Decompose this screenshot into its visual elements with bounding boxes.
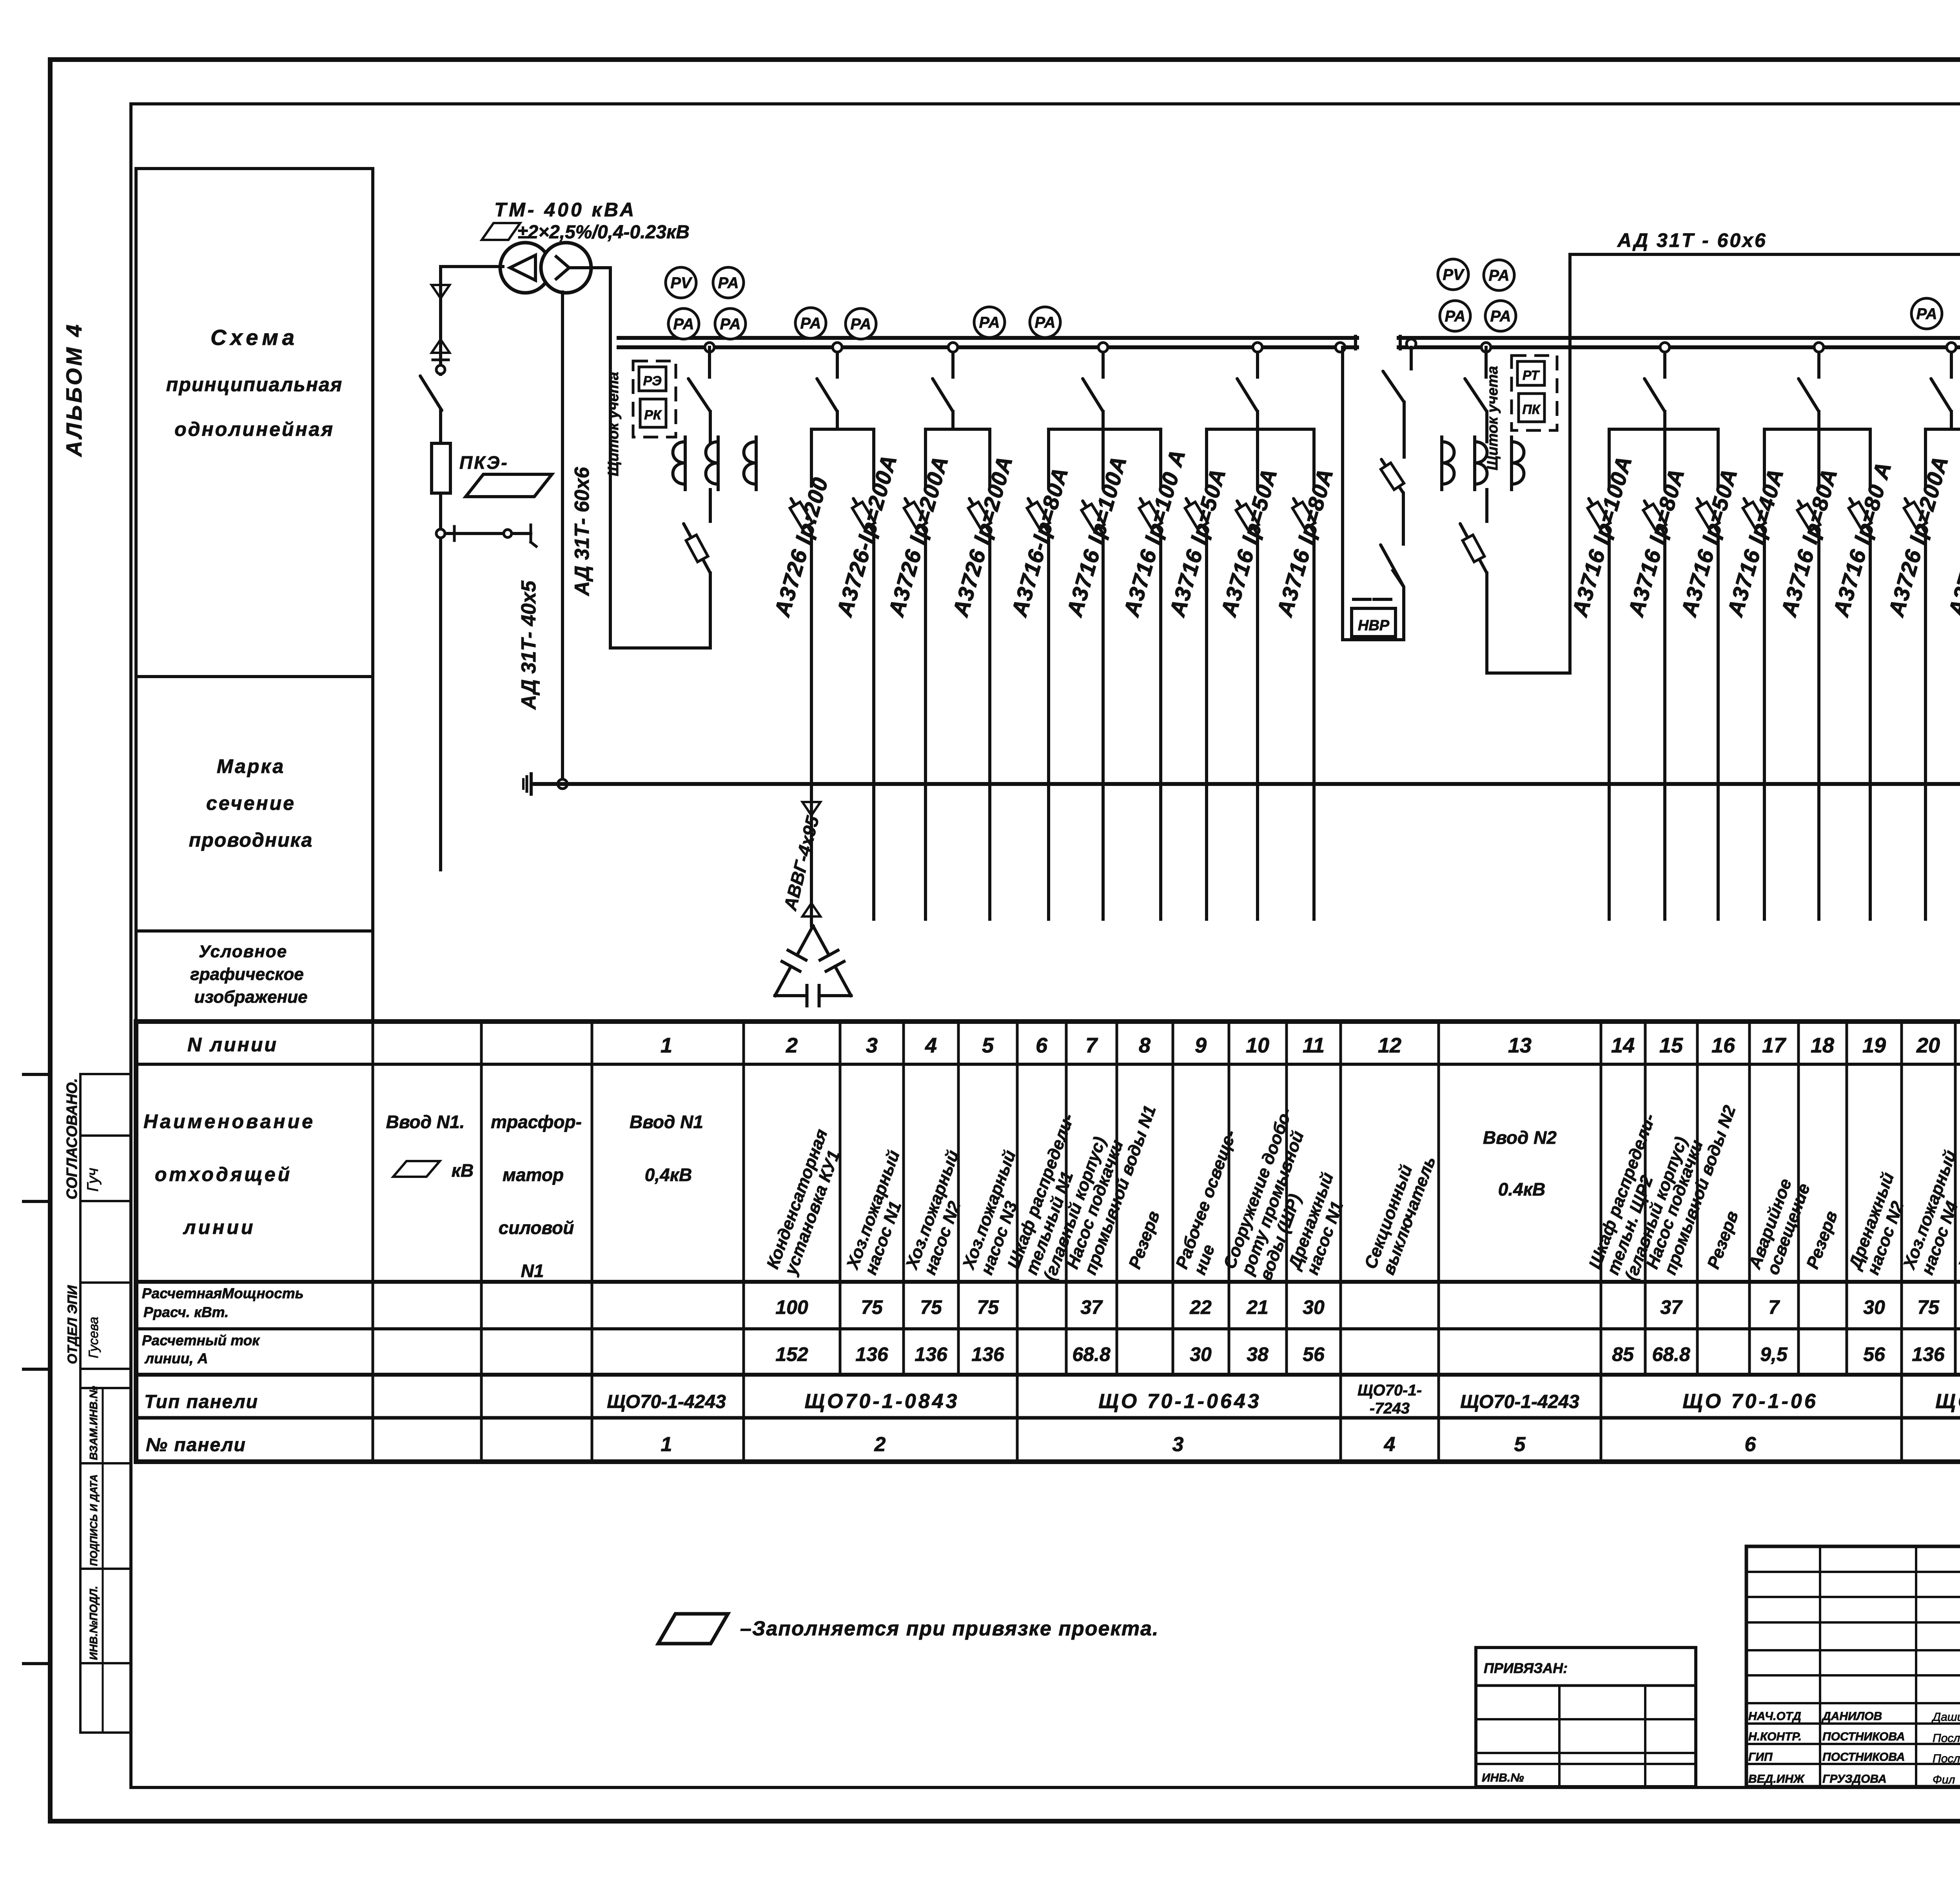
svg-text:5: 5: [1514, 1433, 1526, 1456]
svg-text:ЩО70-1-4243: ЩО70-1-4243: [1460, 1392, 1579, 1412]
left disconnect blade: [420, 376, 442, 410]
svg-text:А3716 Iр=100А: А3716 Iр=100А: [1062, 453, 1131, 620]
svg-text:6: 6: [1036, 1034, 1048, 1057]
meters group 2 (PV PA): [1438, 259, 1468, 290]
vvod N2 line to breaker: [1485, 490, 1488, 521]
node vvod N2: [1481, 343, 1491, 352]
svg-text:1: 1: [661, 1034, 672, 1057]
left line hinge circle: [436, 365, 445, 374]
svg-text:Посл: Посл: [1933, 1732, 1960, 1745]
svg-text:9: 9: [1195, 1034, 1207, 1057]
svg-text:37: 37: [1660, 1296, 1683, 1318]
PKE parallelogram left: [466, 474, 552, 497]
svg-text:PV: PV: [670, 274, 693, 292]
svg-text:20: 20: [1916, 1034, 1940, 1057]
svg-text:изображение: изображение: [194, 987, 307, 1007]
feeder line9: [1205, 429, 1208, 486]
svg-text:21: 21: [1246, 1296, 1269, 1318]
svg-text:РасчетнаяМощность: РасчетнаяМощность: [142, 1285, 304, 1301]
svg-text:Резерв: Резерв: [1125, 1208, 1163, 1272]
svg-text:Резерв: Резерв: [1704, 1208, 1742, 1272]
feeder line8: [1159, 429, 1162, 486]
node vvod N1: [705, 343, 714, 352]
svg-text:А3726 Iр:200: А3726 Iр:200: [769, 474, 833, 620]
node section bus1: [1336, 343, 1345, 352]
svg-text:Гуч: Гуч: [84, 1168, 102, 1192]
feeder line6: [1047, 429, 1050, 486]
svg-text:графическое: графическое: [190, 965, 303, 984]
svg-text:А3726 Iр=200А: А3726 Iр=200А: [1883, 453, 1953, 620]
svg-text:3: 3: [866, 1034, 878, 1057]
svg-text:13: 13: [1508, 1034, 1532, 1057]
svg-text:А3716 Iр=80А: А3716 Iр=80А: [1272, 465, 1338, 620]
bracket group line9-11: [1207, 428, 1314, 431]
svg-text:ДАНИЛОВ: ДАНИЛОВ: [1821, 1710, 1882, 1723]
svg-text:Ввод N1.: Ввод N1.: [386, 1112, 465, 1132]
left header column box: [136, 169, 373, 677]
svg-text:N линии: N линии: [187, 1034, 278, 1056]
svg-text:кВ: кВ: [452, 1160, 474, 1181]
svg-text:100: 100: [775, 1296, 808, 1318]
svg-text:136: 136: [1912, 1343, 1945, 1365]
feeder line17: [1763, 429, 1766, 486]
svg-text:ЩО 70-1-0643: ЩО 70-1-0643: [1098, 1390, 1261, 1413]
svg-text:7: 7: [1085, 1034, 1098, 1057]
svg-text:152: 152: [775, 1343, 808, 1365]
NVR box: [1343, 569, 1404, 640]
svg-text:АВВГ-4х95: АВВГ-4х95: [780, 813, 823, 913]
capacitor bank KU1: [797, 926, 813, 955]
node section bus2: [1406, 339, 1416, 348]
svg-text:Гусева: Гусева: [86, 1317, 101, 1358]
svg-text:РА: РА: [1034, 314, 1055, 331]
svg-text:ПОДПИСЬ И ДАТА: ПОДПИСЬ И ДАТА: [88, 1474, 100, 1566]
bracket group line4-5: [926, 428, 990, 431]
svg-text:трасфор-: трасфор-: [491, 1112, 582, 1132]
svg-text:силовой: силовой: [499, 1218, 574, 1238]
svg-text:±2×2,5%/0,4-0.23кВ: ±2×2,5%/0,4-0.23кВ: [517, 222, 690, 243]
svg-text:10: 10: [1246, 1034, 1269, 1057]
svg-text:Ррасч. кВт.: Ррасч. кВт.: [143, 1304, 229, 1320]
svg-text:56: 56: [1303, 1343, 1325, 1365]
margin stamp column: [79, 1074, 82, 1733]
left incoming line upper: [439, 267, 442, 374]
svg-text:Посл: Посл: [1933, 1752, 1960, 1765]
bracket group line2-3: [811, 428, 874, 431]
svg-text:0.4кВ: 0.4кВ: [1498, 1179, 1545, 1199]
vvod N2 top run to T2: [1570, 253, 1960, 256]
svg-text:ОТДЕЛ ЭПИ: ОТДЕЛ ЭПИ: [65, 1285, 80, 1364]
capacitor feeder KU1 tail: [802, 802, 820, 815]
svg-text:А3716 Iр=80А: А3716 Iр=80А: [1623, 465, 1689, 620]
svg-text:Наименование: Наименование: [143, 1110, 315, 1132]
left fuse FU1: [439, 443, 442, 493]
svg-text:75: 75: [861, 1296, 883, 1318]
svg-text:75: 75: [1917, 1296, 1940, 1318]
svg-text:ГРУЗДОВА: ГРУЗДОВА: [1822, 1773, 1887, 1785]
vvod N2 riser: [1568, 254, 1572, 673]
svg-text:линии, А: линии, А: [144, 1350, 208, 1366]
svg-text:8: 8: [1139, 1034, 1151, 1057]
svg-text:Ввод N2: Ввод N2: [1483, 1127, 1557, 1148]
svg-text:ЩО70-1-: ЩО70-1-: [1357, 1382, 1422, 1399]
vvod N1 riser to T1: [587, 266, 610, 269]
table vertical rules: [372, 1022, 374, 1375]
svg-text:4: 4: [1384, 1433, 1396, 1456]
svg-text:линии: линии: [183, 1216, 256, 1238]
svg-text:Условное: Условное: [199, 942, 287, 961]
table outer border: [136, 1022, 1960, 1462]
left drawout contact arrows: [432, 285, 450, 298]
svg-text:2: 2: [786, 1034, 798, 1057]
svg-text:РА: РА: [850, 316, 871, 333]
svg-text:ЩО70-1-0843: ЩО70-1-0843: [805, 1390, 960, 1413]
vvod N2 breaker QF2: [1460, 524, 1487, 573]
marka box: [136, 677, 373, 931]
T1 LV riser line: [561, 292, 564, 784]
svg-text:РА: РА: [800, 315, 821, 332]
table horizontal rules: [136, 1063, 1960, 1066]
svg-text:ВЗАМ.ИНВ.№: ВЗАМ.ИНВ.№: [87, 1386, 100, 1460]
svg-text:СОГЛАСОВАНО.: СОГЛАСОВАНО.: [64, 1078, 80, 1199]
feeder line14: [1608, 429, 1611, 486]
bus1 ammeters: [795, 308, 826, 338]
shchitok ucheta box left: [633, 361, 676, 437]
svg-text:АД 31Т - 60х6: АД 31Т - 60х6: [1617, 229, 1767, 251]
svg-text:4: 4: [925, 1034, 937, 1057]
uslovnoe box: [136, 931, 373, 1021]
feeder line4: [924, 429, 927, 486]
svg-text:7: 7: [1768, 1296, 1780, 1318]
svg-text:РА: РА: [1488, 267, 1509, 284]
svg-text:НВР: НВР: [1358, 617, 1390, 634]
svg-text:НАЧ.ОТД: НАЧ.ОТД: [1748, 1710, 1801, 1723]
svg-text:А3716-Iр=80А: А3716-Iр=80А: [1006, 464, 1073, 620]
svg-text:ИНВ.№: ИНВ.№: [1482, 1771, 1524, 1784]
svg-text:5: 5: [982, 1034, 994, 1057]
feeder line16: [1717, 429, 1720, 486]
svg-text:ЩО70-1-4243: ЩО70-1-4243: [607, 1392, 726, 1412]
svg-text:17: 17: [1762, 1034, 1787, 1057]
vvod N1 breaker QF1: [684, 524, 710, 573]
svg-text:136: 136: [915, 1343, 948, 1365]
svg-text:№ панели: № панели: [146, 1435, 246, 1455]
svg-text:85: 85: [1612, 1343, 1634, 1365]
svg-text:-7243: -7243: [1370, 1400, 1410, 1417]
svg-text:ПК: ПК: [1522, 402, 1541, 417]
svg-text:принципиальная: принципиальная: [166, 374, 343, 396]
bracket group line6-8: [1049, 428, 1161, 431]
svg-text:однолинейная: однолинейная: [174, 418, 334, 440]
svg-text:ПРИВЯЗАН:: ПРИВЯЗАН:: [1484, 1660, 1568, 1676]
svg-text:75: 75: [920, 1296, 942, 1318]
svg-text:ВЕД.ИНЖ: ВЕД.ИНЖ: [1748, 1773, 1805, 1785]
svg-text:PV: PV: [1443, 266, 1465, 283]
svg-text:68.8: 68.8: [1652, 1343, 1690, 1365]
svg-text:136: 136: [855, 1343, 889, 1365]
left earthing tee: [441, 532, 531, 535]
svg-text:А3726 Iр=200А: А3726 Iр=200А: [947, 453, 1017, 620]
svg-text:0,4кВ: 0,4кВ: [645, 1165, 692, 1185]
svg-text:Ввод N1: Ввод N1: [630, 1112, 703, 1132]
feeder line5: [988, 429, 991, 486]
bracket group line14-16: [1609, 428, 1718, 431]
vvod N1 CTs: [673, 442, 686, 484]
title block signature grid: [1746, 1546, 1960, 1787]
svg-text:А3716 Iр=80А: А3716 Iр=80А: [1776, 465, 1842, 620]
svg-text:ИНВ.№ПОДЛ.: ИНВ.№ПОДЛ.: [87, 1586, 100, 1660]
svg-text:19: 19: [1862, 1034, 1886, 1057]
svg-text:ПОСТНИКОВА: ПОСТНИКОВА: [1822, 1730, 1905, 1743]
svg-text:отходящей: отходящей: [155, 1163, 292, 1185]
feeder line20: [1924, 429, 1927, 486]
vvod N1 down leg: [709, 573, 712, 648]
svg-text:РА: РА: [718, 274, 739, 292]
bus section 2: [1399, 336, 1960, 340]
shchitok ucheta box right: [1512, 356, 1557, 430]
svg-text:ПКЭ-: ПКЭ-: [459, 452, 509, 473]
section left drop: [1341, 347, 1344, 640]
feeder line19: [1869, 429, 1872, 486]
svg-text:РА: РА: [1445, 308, 1465, 325]
privyazan block: [1476, 1648, 1696, 1787]
svg-text:РЭ: РЭ: [643, 374, 661, 388]
svg-text:14: 14: [1611, 1034, 1635, 1057]
vvod N2 down leg: [1485, 573, 1488, 673]
vvod N2 CTs: [1442, 442, 1454, 484]
vvod N1 U-bottom: [610, 646, 710, 650]
svg-text:22: 22: [1189, 1296, 1212, 1318]
T1 rating parallelogram: [482, 223, 520, 240]
bracket group line20-21: [1926, 428, 1960, 431]
svg-text:ТМ- 400 кВА: ТМ- 400 кВА: [494, 199, 636, 221]
svg-text:Тип панели: Тип панели: [144, 1392, 258, 1412]
section switch chain: [1410, 347, 1413, 369]
svg-text:75: 75: [977, 1296, 999, 1318]
feeder line2: [810, 429, 813, 486]
note parallelogram: [658, 1614, 728, 1644]
svg-text:15: 15: [1659, 1034, 1683, 1057]
svg-text:12: 12: [1378, 1034, 1401, 1057]
svg-text:Схема: Схема: [211, 325, 298, 350]
lower PEN bus: [533, 782, 1960, 786]
feeder line11: [1312, 429, 1316, 486]
vvod N1 line to breaker: [709, 490, 712, 521]
bus2 ammeters: [1911, 298, 1942, 329]
svg-text:56: 56: [1863, 1343, 1886, 1365]
svg-text:РА: РА: [1490, 308, 1511, 325]
vvod N1 disconnector: [708, 347, 711, 377]
svg-text:Расчетный ток: Расчетный ток: [142, 1332, 260, 1348]
svg-text:РК: РК: [644, 408, 662, 423]
svg-text:Фил: Фил: [1933, 1773, 1955, 1786]
svg-text:проводника: проводника: [189, 829, 313, 851]
meters group 1 (PV PA): [666, 267, 696, 298]
svg-text:37: 37: [1080, 1296, 1103, 1318]
svg-text:АД 31Т- 60х6: АД 31Т- 60х6: [571, 466, 593, 597]
svg-text:30: 30: [1303, 1296, 1325, 1318]
svg-text:Щиток учета: Щиток учета: [605, 372, 622, 476]
svg-text:Марка: Марка: [217, 755, 285, 777]
left ground mark: [530, 774, 533, 794]
svg-text:АД 31Т- 40х5: АД 31Т- 40х5: [517, 580, 540, 710]
svg-text:38: 38: [1247, 1343, 1269, 1365]
transformer T1: [500, 243, 550, 293]
svg-text:2: 2: [874, 1433, 886, 1456]
svg-text:матор: матор: [503, 1165, 564, 1185]
svg-text:1: 1: [661, 1433, 672, 1456]
svg-text:сечение: сечение: [206, 792, 296, 814]
svg-text:Даши: Даши: [1931, 1711, 1960, 1724]
svg-text:30: 30: [1190, 1343, 1212, 1365]
svg-text:30: 30: [1863, 1296, 1885, 1318]
svg-text:РА: РА: [1916, 305, 1937, 323]
svg-text:ЩО 70-1-0843: ЩО 70-1-0843: [1935, 1390, 1960, 1413]
svg-text:11: 11: [1303, 1034, 1325, 1057]
edge fold marks: [24, 1073, 50, 1076]
svg-text:3: 3: [1172, 1433, 1184, 1456]
svg-text:АЛЬБОМ 4: АЛЬБОМ 4: [62, 322, 86, 457]
svg-text:ЩО 70-1-06: ЩО 70-1-06: [1682, 1390, 1818, 1413]
svg-text:16: 16: [1711, 1034, 1735, 1057]
svg-text:6: 6: [1745, 1433, 1757, 1456]
wire T1 to PKE line: [441, 265, 503, 268]
svg-text:Щиток учета: Щиток учета: [1485, 366, 1501, 470]
vvod N2 U-bottom: [1487, 671, 1570, 675]
svg-text:136: 136: [971, 1343, 1005, 1365]
svg-text:68.8: 68.8: [1072, 1343, 1111, 1365]
svg-text:–Заполняется при привязке прое: –Заполняется при привязке проекта.: [740, 1617, 1159, 1640]
svg-text:18: 18: [1811, 1034, 1834, 1057]
svg-text:РТ: РТ: [1523, 368, 1540, 383]
svg-text:РА: РА: [673, 316, 694, 333]
vvod N2 disconnector: [1485, 347, 1488, 377]
left line mid: [439, 410, 442, 443]
svg-text:А3716 Iр=100А: А3716 Iр=100А: [1567, 453, 1637, 620]
feeder line3: [872, 429, 875, 486]
svg-text:Резерв: Резерв: [1803, 1208, 1841, 1272]
svg-text:РА: РА: [720, 316, 740, 333]
svg-text:РА: РА: [979, 314, 1000, 331]
svg-text:9,5: 9,5: [1760, 1343, 1788, 1365]
svg-text:N1: N1: [521, 1261, 544, 1281]
svg-text:ПОСТНИКОВА: ПОСТНИКОВА: [1822, 1751, 1905, 1764]
bracket group line17-19: [1764, 428, 1870, 431]
bus section 1: [619, 336, 1357, 340]
svg-text:ГИП: ГИП: [1748, 1751, 1773, 1764]
svg-text:Н.КОНТР.: Н.КОНТР.: [1748, 1730, 1802, 1743]
